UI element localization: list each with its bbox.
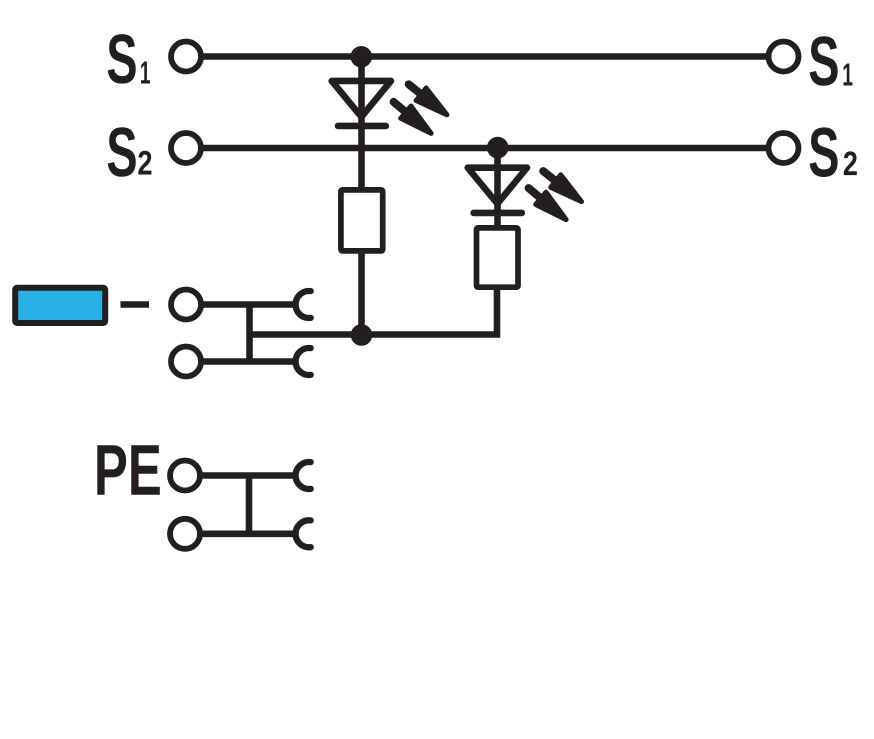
resistor R2	[477, 228, 519, 287]
node junction on S2 bus	[487, 137, 509, 159]
label PE	[97, 445, 160, 495]
terminal circle S2 right	[769, 133, 799, 163]
terminal circle S1 left	[171, 42, 201, 72]
node junction bottom	[351, 324, 373, 346]
disconnect terminal lower circle	[171, 347, 201, 377]
wire disconnect upper	[199, 301, 297, 308]
wire dash	[121, 301, 150, 308]
wire R1 to bottom node	[358, 249, 365, 335]
wire S1 bus	[199, 53, 771, 60]
wire S2 bus	[199, 145, 771, 152]
wire LED D1 vertical	[358, 57, 365, 191]
wire disconnect lower	[199, 358, 297, 365]
blue marker plate	[15, 288, 105, 323]
PE terminal lower circle	[170, 519, 200, 549]
LED D1	[332, 81, 391, 126]
wire disconnect crossbar	[246, 305, 253, 362]
label S2 left	[108, 127, 152, 177]
label S1 left	[108, 34, 150, 84]
LED D2 light arrows	[523, 165, 586, 226]
label S1 right	[810, 36, 853, 86]
wire PE crossbar	[246, 476, 253, 534]
disconnect terminal upper circle	[171, 290, 201, 320]
wire bottom bus with corner up to R2	[250, 289, 498, 335]
contact arc lower	[296, 348, 311, 375]
contact arc PE upper	[296, 462, 311, 489]
LED D1 light arrows	[388, 78, 451, 139]
terminal circle S1 right	[769, 42, 799, 72]
resistor R1	[341, 190, 383, 251]
wire PE lower	[198, 530, 297, 537]
label S2 right	[810, 127, 857, 177]
PE terminal upper circle	[170, 461, 200, 491]
wire LED D2 vertical	[494, 148, 501, 226]
wire PE upper	[198, 472, 297, 479]
contact arc PE lower	[296, 520, 311, 547]
node junction on S1 bus	[351, 46, 373, 68]
LED D2	[468, 168, 527, 213]
contact arc upper	[296, 291, 311, 318]
terminal circle S2 left	[171, 133, 201, 163]
